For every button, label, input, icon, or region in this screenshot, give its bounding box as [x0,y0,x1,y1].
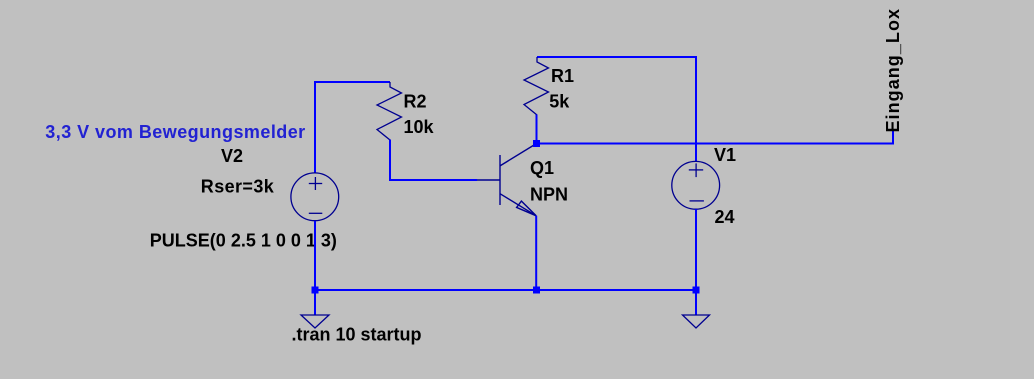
resistor R1 [524,57,549,115]
junction V2 bottom [312,287,319,294]
wire V1 bottom to bottom rail [695,209,697,290]
voltage source V1 [672,161,720,209]
wire top rail from R1 top to V1 drop [537,57,696,162]
svg-text:.tran 10 startup: .tran 10 startup [292,324,422,344]
svg-text:3,3 V vom Bewegungsmelder: 3,3 V vom Bewegungsmelder [45,122,305,142]
wire bottom rail [315,289,696,291]
svg-text:5k: 5k [549,92,570,112]
svg-text:10k: 10k [404,117,435,137]
svg-text:NPN: NPN [530,185,568,205]
svg-text:V2: V2 [221,146,243,166]
resistor R2 [377,82,402,140]
svg-text:Eingang_Lox: Eingang_Lox [883,8,903,133]
svg-text:R1: R1 [551,66,574,86]
svg-text:Q1: Q1 [530,158,554,178]
wire V2 bottom to bottom rail [314,221,316,290]
svg-text:R2: R2 [404,92,427,112]
wire collector junction to Eingang_Lox stub [537,131,894,144]
junction at collector node [533,140,540,147]
wire from R2 bottom to Q1 base [390,140,477,181]
wire from V2 top to R2 top (left vertical + horizontal) [315,82,390,173]
svg-text:24: 24 [715,207,735,227]
svg-text:Rser=3k: Rser=3k [201,177,275,197]
wire left ground stub [314,290,316,315]
voltage source V2 [291,173,339,221]
ground left [301,315,329,328]
svg-text:PULSE(0 2.5 1 0 0 1 3): PULSE(0 2.5 1 0 0 1 3) [150,231,337,251]
junction V1 bottom [693,287,700,294]
wire R1 bottom to collector junction [536,115,538,144]
junction emitter bottom [533,287,540,294]
transistor Q1 [477,144,537,216]
wire right ground stub [695,290,697,315]
svg-text:V1: V1 [714,145,736,165]
wire emitter to bottom rail [535,216,537,290]
ground right [683,315,710,328]
